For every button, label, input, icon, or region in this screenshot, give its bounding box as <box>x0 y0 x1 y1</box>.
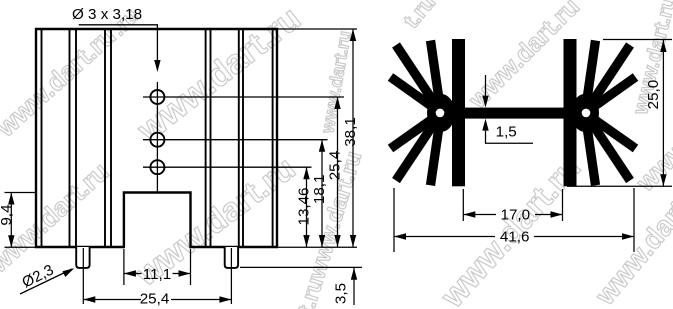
svg-text:3,5: 3,5 <box>333 283 350 304</box>
dim 41,6 line left <box>394 236 495 238</box>
left hub boss <box>427 94 455 132</box>
dim 9,4 arrow down <box>8 235 14 247</box>
hole middle <box>150 133 164 147</box>
svg-text:Ø 3 x 3,18: Ø 3 x 3,18 <box>72 6 142 23</box>
left fin E <box>392 110 445 183</box>
dim 41,6 arrow right <box>622 233 634 239</box>
fin line x=111 <box>110 29 112 247</box>
svg-text:25,0: 25,0 <box>645 80 662 110</box>
dim 3,5 line <box>353 267 355 305</box>
right pin center line <box>230 248 232 304</box>
right plate bar <box>564 39 577 186</box>
dim 25,0 line <box>662 40 664 186</box>
left fin F <box>426 112 446 186</box>
fin line x=105 <box>104 29 106 247</box>
svg-text:18,1: 18,1 <box>311 175 328 205</box>
dim 41,6 line right <box>534 236 634 238</box>
svg-text:41,6: 41,6 <box>500 229 530 246</box>
heatsink body outline with bottom notch <box>36 29 277 247</box>
dim 13,46 line <box>306 167 308 247</box>
left pin center line <box>82 248 84 304</box>
dim 11,1 extension right <box>190 249 192 285</box>
left hub hole <box>436 109 445 118</box>
dim 25,4 bottom line right <box>171 299 231 301</box>
fin line x=272.6 <box>272 29 274 247</box>
dim 9,4 line <box>10 193 12 248</box>
fin line x=238.8 <box>238 29 240 247</box>
svg-text:11,1: 11,1 <box>143 266 171 283</box>
leader arrow down <box>154 60 160 72</box>
right fin D <box>582 109 638 152</box>
right-side extension bottom edge <box>277 246 357 248</box>
svg-text:13,46: 13,46 <box>296 187 313 225</box>
pin diameter arrow <box>63 268 75 277</box>
dim 25,0 arrow down <box>660 174 666 186</box>
right fin C <box>582 73 638 117</box>
dim 17,0 arrow right <box>551 211 563 217</box>
left fin B <box>392 42 445 115</box>
dim 25,0 arrow up <box>660 40 666 52</box>
dim 17,0 extension right <box>562 189 564 221</box>
fin line x=41.5 <box>41 29 43 247</box>
svg-text:9,4: 9,4 <box>0 204 15 225</box>
dim 38,1 line <box>352 29 354 247</box>
fin line x=210.5 <box>210 29 212 247</box>
hole top cross line <box>143 96 344 98</box>
hole top <box>150 90 164 104</box>
dim 1,5 upper line <box>485 75 487 96</box>
fin line x=69.5 <box>69 29 71 247</box>
right hub boss <box>571 94 599 132</box>
left fin C <box>388 73 444 117</box>
dim 18,1 line <box>321 140 323 247</box>
dim 11,1 extension left <box>123 249 125 285</box>
dim 25,0 extension top <box>603 39 672 41</box>
right-side extension top edge <box>277 28 357 30</box>
dim 11,1 line right <box>173 273 191 275</box>
dim 17,0 extension left <box>462 189 464 221</box>
dim 41,6 extension left <box>393 188 395 252</box>
left pin <box>76 247 89 268</box>
dim 1,5 arrow down <box>482 96 488 108</box>
svg-text:38,1: 38,1 <box>342 117 359 147</box>
web <box>460 108 568 119</box>
dim 9,4 extension bottom <box>5 246 37 248</box>
left plate bar <box>452 39 465 186</box>
right fin A <box>580 40 600 114</box>
right fin E <box>581 110 634 183</box>
left fin A <box>426 40 446 114</box>
svg-text:1,5: 1,5 <box>496 124 517 141</box>
hole center line vertical <box>156 82 158 193</box>
right fin F <box>580 112 600 186</box>
label pin diameter leader <box>20 269 72 294</box>
svg-text:25,4: 25,4 <box>140 291 170 308</box>
dim 25,0 extension bottom <box>567 185 672 187</box>
dim 25,4 arrow right <box>219 296 231 302</box>
dim 1,5 arrow up <box>482 119 488 131</box>
dim 25,4 bottom line left <box>83 299 141 301</box>
fin line x=76 <box>75 29 77 247</box>
dim 3,5 arrow up <box>351 268 357 280</box>
dim 41,6 extension right <box>633 188 635 252</box>
dim 1,5 lower line + foot <box>486 131 534 144</box>
fin line x=243 <box>242 29 244 247</box>
right pin <box>225 247 238 268</box>
dim 25,4 right line <box>337 97 339 247</box>
leader for hole size <box>79 25 158 60</box>
hole middle cross line <box>143 139 328 141</box>
svg-text:17,0: 17,0 <box>501 206 531 223</box>
dim 11,1 arrow right <box>179 270 191 276</box>
dim 9,4 arrow up <box>8 193 14 205</box>
dim 25,4 arrow left <box>83 296 95 302</box>
dim 17,0 line left <box>463 214 496 216</box>
dim 9,4 extension top <box>5 192 37 194</box>
fin line x=205.6 <box>205 29 207 247</box>
hole bottom <box>150 160 164 174</box>
hole bottom cross line <box>143 166 312 168</box>
right hub hole <box>582 109 591 118</box>
dim 11,1 line left <box>124 273 142 275</box>
svg-text:25,4: 25,4 <box>327 151 344 181</box>
dim 17,0 arrow left <box>463 211 475 217</box>
left fin D <box>388 109 444 152</box>
dim 41,6 arrow left <box>394 233 406 239</box>
dim 17,0 line right <box>535 214 563 216</box>
pin bottom extension line <box>240 266 362 268</box>
dim 11,1 arrow left <box>124 270 136 276</box>
right fin B <box>581 42 634 115</box>
